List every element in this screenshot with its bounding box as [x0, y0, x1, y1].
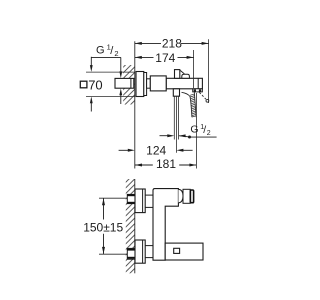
escutcheon plate (side profile): [136, 72, 144, 97]
svg-text:174: 174: [155, 51, 175, 65]
dimension square 70 (plate): [80, 57, 135, 112]
svg-text:124: 124: [146, 144, 166, 158]
svg-text:150±15: 150±15: [83, 221, 123, 235]
svg-text:2: 2: [207, 130, 211, 137]
measuring point circle: [206, 99, 209, 102]
wall hatch (side elevation): [126, 179, 135, 273]
faucet body (S-shape column): [153, 189, 178, 261]
lower union to body: [145, 245, 153, 247]
spout outlet square: [174, 248, 180, 253]
svg-text:/: /: [203, 124, 206, 136]
upper union nut: [127, 194, 135, 203]
outlet stub extension lines: [173, 96, 175, 139]
connector plate-to-body: [147, 79, 151, 88]
svg-text:G: G: [96, 44, 105, 56]
water stream: [182, 92, 197, 117]
body end ring: [197, 78, 199, 89]
cartridge cap: [178, 189, 183, 203]
svg-text:181: 181: [156, 157, 176, 171]
upper union to body: [145, 194, 153, 196]
svg-text:G: G: [190, 124, 198, 136]
wall face line (side elevation): [134, 179, 136, 273]
dimension 174: [135, 50, 194, 88]
spout arm: [165, 243, 203, 260]
dashed leader to measuring point: [199, 92, 206, 99]
lower union nut: [127, 248, 135, 259]
handle blade (edge-on): [190, 190, 193, 203]
lever neck: [175, 70, 180, 79]
cartridge block: [150, 76, 166, 91]
lower escutcheon plate: [135, 240, 145, 263]
shower outlet stub: [173, 89, 179, 96]
lever blade tip bump: [182, 74, 190, 78]
dimension 181: [135, 93, 196, 171]
wall face line (plan view, also extension line for dims): [134, 41, 136, 168]
aerator marks: [194, 89, 196, 91]
body tube: [166, 78, 202, 89]
label G 1/2 (bottom, outlet): [160, 124, 217, 139]
handle grip: [183, 189, 190, 203]
upper escutcheon plate: [135, 189, 145, 213]
svg-text:2: 2: [114, 49, 118, 58]
svg-text:70: 70: [88, 77, 102, 92]
lever blade edge: [180, 70, 184, 74]
plate front bevel: [144, 73, 147, 96]
dimension 150±15: [83, 198, 127, 254]
aerator lip: [193, 89, 203, 92]
wall hatch (plan view): [123, 65, 135, 105]
label G 1/2 (top, inlet): [91, 43, 122, 105]
dimension 124: [119, 144, 193, 158]
dimension 218: [135, 37, 209, 103]
supply pipe through wall: [115, 78, 134, 88]
svg-text:218: 218: [162, 37, 182, 51]
